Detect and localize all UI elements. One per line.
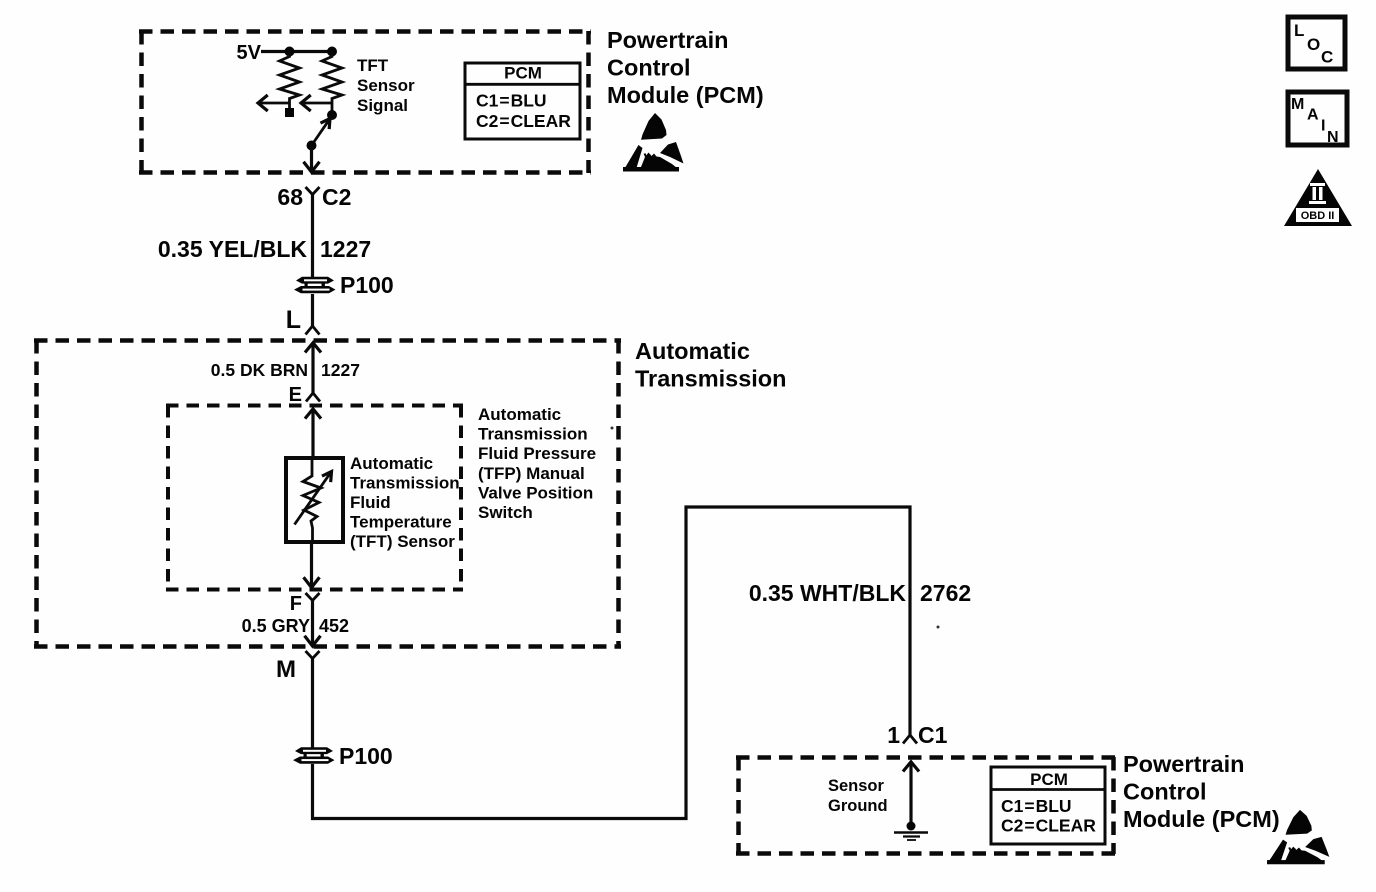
svg-text:Automatic: Automatic — [478, 405, 561, 424]
PCM module box top (dashed) — [139, 31, 591, 173]
svg-text:Transmission: Transmission — [350, 474, 460, 493]
TFT sensor box — [286, 458, 343, 542]
svg-text:P100: P100 — [340, 272, 394, 298]
internal signal arrow left — [260, 102, 290, 105]
svg-text:F: F — [290, 593, 302, 615]
title: Automatic Transmission — [635, 338, 787, 392]
svg-text:C2=CLEAR: C2=CLEAR — [476, 111, 571, 131]
wire 5V rail — [261, 50, 332, 53]
svg-text:0.5 DK BRN: 0.5 DK BRN — [211, 360, 308, 380]
node: 5V to R1 — [285, 47, 295, 57]
PCM module box bottom (dashed) — [736, 757, 1116, 854]
inline connector P100 grommet (lower) — [293, 747, 335, 763]
svg-text:Transmission: Transmission — [635, 366, 787, 392]
svg-text:2762: 2762 — [920, 580, 971, 606]
label Sensor Ground — [828, 777, 888, 815]
svg-text:M: M — [1291, 96, 1304, 113]
svg-text:Control: Control — [607, 55, 691, 81]
wire 452 GRY (down arrow) — [311, 600, 314, 645]
svg-text:1227: 1227 — [320, 236, 371, 262]
svg-text:C1=BLU: C1=BLU — [1001, 796, 1072, 816]
resistor R1 (pull-up) — [280, 52, 300, 110]
svg-text:L: L — [286, 306, 301, 334]
svg-text:E: E — [289, 384, 302, 406]
terminal M (Y) — [306, 651, 320, 659]
LOC legend box — [1288, 17, 1345, 69]
internal signal arrow right — [303, 102, 333, 105]
ESD sensitive device symbol (bottom) — [1267, 810, 1329, 864]
svg-text:Transmission: Transmission — [478, 425, 588, 444]
svg-text:PCM: PCM — [1030, 770, 1068, 789]
wire: sensor ground return path — [313, 507, 911, 819]
wire P100 to transmission — [311, 294, 314, 326]
thermistor diagonal arrow — [295, 474, 331, 525]
svg-text:A: A — [1307, 107, 1319, 124]
wire entering transmission (up arrow) — [306, 343, 320, 352]
wire M to P100 lower — [311, 658, 314, 748]
svg-text:68: 68 — [277, 184, 303, 210]
wire: signal to pin 68 (down arrow) — [310, 146, 313, 171]
svg-text:Automatic: Automatic — [635, 338, 750, 364]
ESD sensitive device symbol (top) — [623, 113, 684, 172]
svg-text:Switch: Switch — [478, 503, 533, 522]
svg-text:(TFP) Manual: (TFP) Manual — [478, 464, 585, 483]
svg-text:C: C — [1321, 48, 1333, 67]
node: 5V to R2 — [327, 47, 337, 57]
svg-text:Automatic: Automatic — [350, 454, 433, 473]
resistor R2 (pull-up) — [322, 52, 342, 116]
ground node dot — [907, 822, 916, 831]
svg-text:M: M — [276, 656, 296, 683]
svg-text:1: 1 — [887, 722, 900, 748]
connector table PCM (top) — [465, 63, 580, 139]
label: Automatic Transmission Fluid Pressure TFP Manual Valve Position Switch — [478, 405, 596, 522]
svg-text:C2=CLEAR: C2=CLEAR — [1001, 816, 1096, 836]
svg-text:Control: Control — [1123, 779, 1207, 805]
svg-text:Fluid: Fluid — [350, 493, 391, 512]
node: wiper to output — [307, 141, 317, 151]
svg-text:Temperature: Temperature — [350, 513, 452, 532]
svg-text:0.35 YEL/BLK: 0.35 YEL/BLK — [158, 236, 308, 262]
wire into PCM (up arrow) to ground — [904, 762, 918, 771]
wire 1227 YEL/BLK — [311, 194, 314, 278]
svg-text:5V: 5V — [237, 42, 262, 64]
terminal L (inverted Y) — [306, 326, 320, 335]
title: Powertrain Control Module PCM (top) — [607, 27, 764, 108]
svg-text:Valve Position: Valve Position — [478, 483, 593, 502]
svg-text:Module (PCM): Module (PCM) — [607, 82, 764, 108]
speck 1 — [611, 427, 614, 430]
svg-text:Sensor: Sensor — [357, 76, 415, 95]
svg-text:452: 452 — [319, 616, 349, 636]
svg-text:Fluid Pressure: Fluid Pressure — [478, 444, 596, 463]
svg-text:Ground: Ground — [828, 797, 888, 815]
label: Automatic Transmission Fluid Temperature TFT Sensor — [350, 454, 460, 551]
svg-text:L: L — [1294, 21, 1304, 40]
OBD II legend triangle — [1284, 169, 1352, 226]
Automatic Transmission box (dashed) — [34, 340, 621, 647]
terminal F (Y) — [306, 593, 320, 601]
svg-text:(TFT) Sensor: (TFT) Sensor — [350, 532, 455, 551]
terminal E (inverted Y) — [306, 393, 320, 402]
svg-text:1227: 1227 — [321, 360, 360, 380]
svg-text:0.35 WHT/BLK: 0.35 WHT/BLK — [749, 580, 907, 606]
svg-text:N: N — [1327, 129, 1339, 146]
TFT thermistor element — [303, 457, 321, 543]
svg-text:Signal: Signal — [357, 96, 408, 115]
svg-text:Powertrain: Powertrain — [1123, 751, 1244, 777]
switch wiper arm diagonal arrow — [312, 120, 330, 146]
svg-text:C2: C2 — [322, 184, 351, 210]
svg-text:I: I — [1321, 118, 1325, 135]
svg-text:P100: P100 — [339, 743, 393, 769]
terminal C2 pin 68 (Y) — [306, 187, 320, 195]
svg-text:C1: C1 — [918, 722, 948, 748]
inline connector P100 grommet (upper) — [294, 277, 336, 293]
title: Powertrain Control Module PCM (bottom) — [1123, 751, 1280, 832]
label: TFT Sensor Signal — [357, 56, 415, 115]
wire TFT sensor to terminal F (down arrow) — [310, 543, 313, 586]
ground symbol — [894, 831, 928, 834]
connector table PCM (bottom) — [991, 767, 1105, 844]
svg-text:Module (PCM): Module (PCM) — [1123, 806, 1280, 832]
svg-text:Sensor: Sensor — [828, 777, 885, 795]
svg-text:TFT: TFT — [357, 56, 389, 75]
MAIN legend box — [1288, 92, 1347, 146]
svg-text:OBD II: OBD II — [1301, 210, 1335, 222]
TFP switch box (inner dashed) — [166, 405, 463, 590]
node: R2 bottom — [327, 110, 337, 120]
svg-text:O: O — [1307, 35, 1320, 54]
terminal square at R1 bottom — [285, 108, 294, 117]
wire into TFP box (up arrow) — [306, 409, 320, 418]
terminal C1 pin 1 (inverted Y) — [903, 735, 917, 744]
svg-text:Powertrain: Powertrain — [607, 27, 728, 53]
speck 2 — [937, 626, 940, 629]
svg-text:PCM: PCM — [504, 64, 542, 83]
svg-text:0.5 GRY: 0.5 GRY — [242, 616, 310, 636]
svg-text:C1=BLU: C1=BLU — [476, 91, 547, 111]
